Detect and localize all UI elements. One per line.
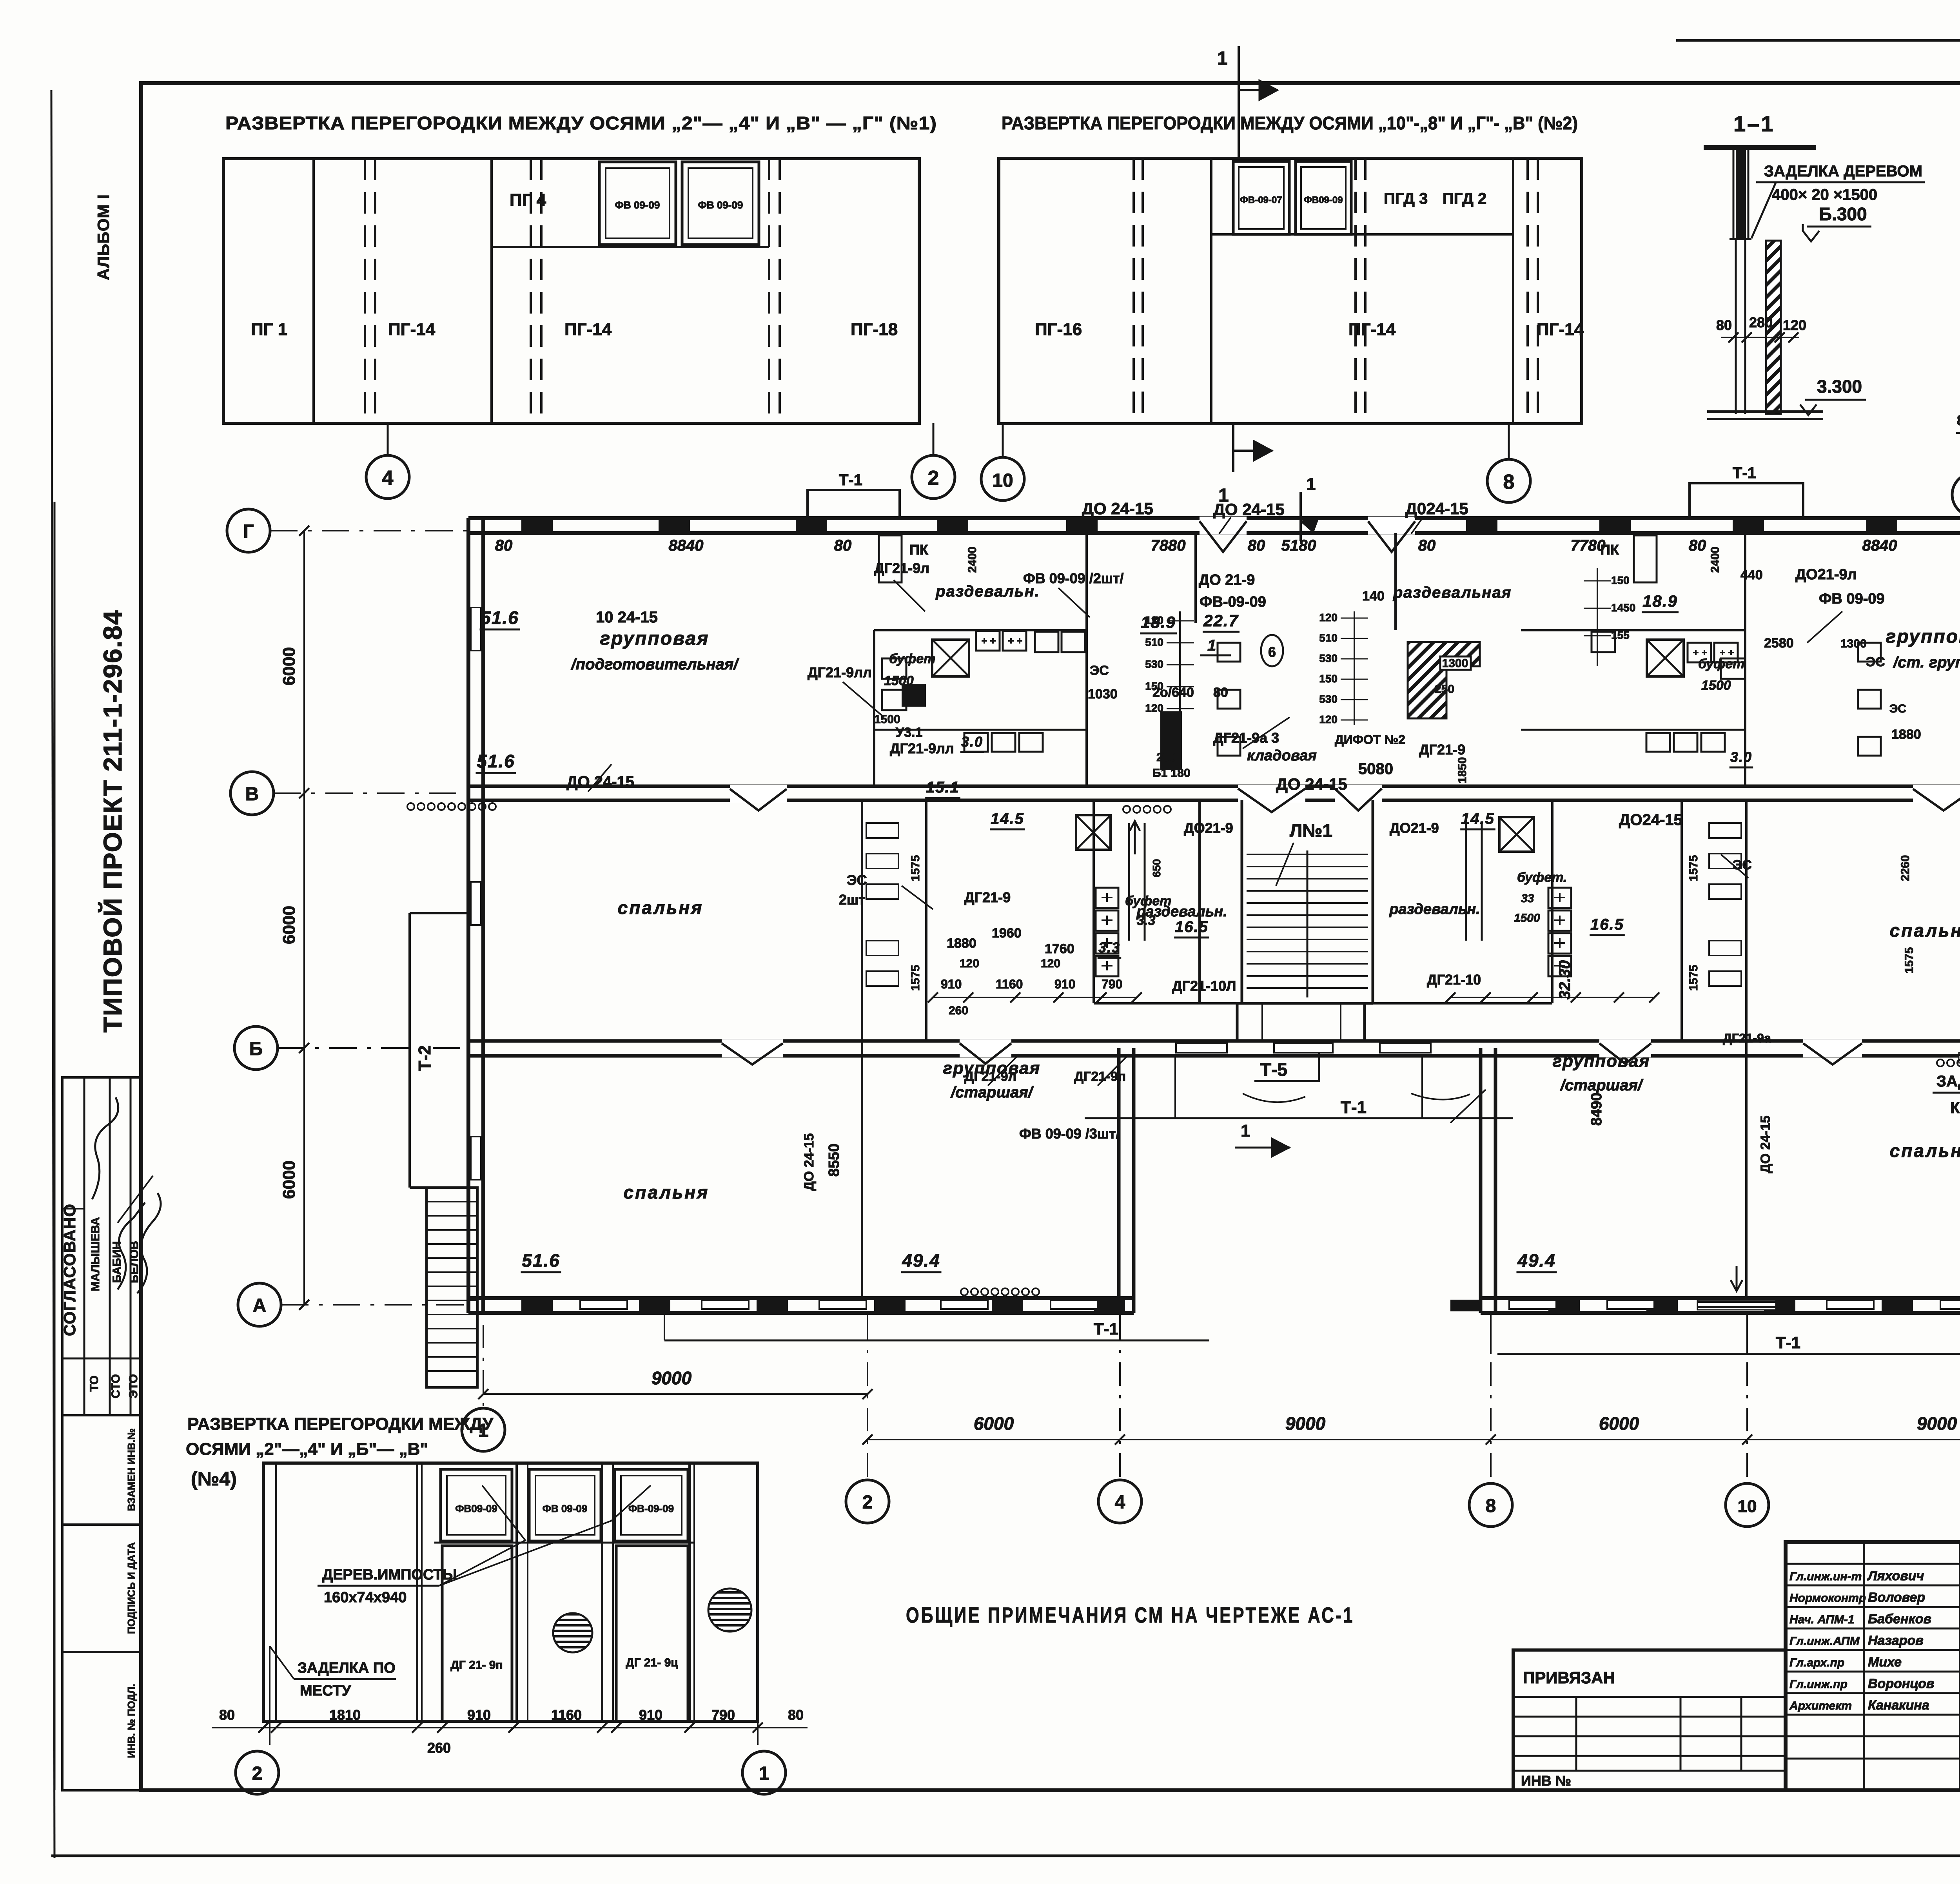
- svg-text:Т-1: Т-1: [839, 471, 862, 489]
- elevation N4 transom band: [434, 1542, 694, 1544]
- svg-text:6000: 6000: [279, 647, 299, 685]
- svg-text:ЭС: ЭС: [1090, 663, 1109, 678]
- svg-text:9000: 9000: [1285, 1413, 1326, 1434]
- washstand X-box a: [932, 640, 969, 676]
- svg-text:6: 6: [1268, 644, 1276, 660]
- svg-text:Архитект: Архитект: [1789, 1699, 1852, 1712]
- svg-text:1160: 1160: [996, 977, 1023, 991]
- axis circle 2: [846, 1480, 889, 1523]
- svg-text:33: 33: [1521, 892, 1534, 905]
- svg-text:ОСЯМИ „2"—„4" И „Б"— „В": ОСЯМИ „2"—„4" И „Б"— „В": [186, 1440, 428, 1459]
- svg-text:ЭТО: ЭТО: [127, 1374, 140, 1398]
- top margin band: [1676, 39, 1960, 42]
- svg-text:ПГ-14: ПГ-14: [1348, 320, 1396, 339]
- svg-text:1760: 1760: [1045, 941, 1074, 956]
- svg-text:160х74х940: 160х74х940: [324, 1589, 407, 1606]
- N4 axis circle 2: [269, 1646, 270, 1745]
- svg-text:120: 120: [1319, 713, 1338, 725]
- svg-text:групповая: групповая: [1886, 626, 1960, 647]
- svg-text:7880: 7880: [1151, 537, 1186, 554]
- svg-text:10: 10: [1738, 1497, 1757, 1516]
- svg-text:Гл.арх.пр: Гл.арх.пр: [1789, 1656, 1844, 1669]
- section mark 1 bottom: [1232, 424, 1234, 472]
- partition cloakroom shelf right: [1521, 729, 1745, 731]
- dim stack right C: [1597, 568, 1598, 666]
- svg-text:Л№1: Л№1: [1290, 820, 1332, 841]
- svg-text:Нач. АПМ-1: Нач. АПМ-1: [1789, 1613, 1855, 1626]
- toilet stalls right: [1709, 823, 1741, 838]
- svg-text:1450: 1450: [1611, 602, 1635, 614]
- svg-text:530: 530: [1319, 652, 1338, 664]
- svg-text:32.30: 32.30: [1556, 960, 1573, 999]
- svg-text:250: 250: [1435, 683, 1454, 696]
- svg-text:510: 510: [1319, 632, 1338, 644]
- svg-text:буфет.: буфет.: [1517, 870, 1567, 885]
- elevation N1 outline: [223, 159, 919, 423]
- elevation N2 transom band: [1211, 233, 1513, 236]
- left wall window boxes: [471, 607, 481, 651]
- svg-text:ФВ 09-09 /2шт/: ФВ 09-09 /2шт/: [1023, 570, 1123, 586]
- svg-text:400× 20 ×1500: 400× 20 ×1500: [1772, 186, 1877, 203]
- axis circle V: [230, 772, 274, 815]
- svg-text:80: 80: [1689, 537, 1706, 554]
- svg-text:ВЗАМЕН ИНВ.№: ВЗАМЕН ИНВ.№: [125, 1429, 137, 1511]
- svg-text:ПГ 4: ПГ 4: [510, 190, 546, 210]
- svg-text:ДО 21-9: ДО 21-9: [1199, 572, 1255, 588]
- svg-text:120: 120: [1145, 614, 1163, 626]
- svg-text:2: 2: [862, 1492, 873, 1513]
- svg-text:А: А: [253, 1295, 267, 1316]
- section floor line: [1707, 410, 1823, 413]
- svg-text:1300: 1300: [1840, 637, 1867, 650]
- svg-text:1880: 1880: [947, 936, 976, 951]
- signatures squiggles: [92, 1097, 118, 1199]
- svg-text:ПОДПИСЬ И ДАТА: ПОДПИСЬ И ДАТА: [125, 1542, 137, 1634]
- svg-text:БАБИН: БАБИН: [111, 1241, 123, 1283]
- axis leader 8: [1508, 424, 1510, 459]
- svg-text:ДО 24-15: ДО 24-15: [1082, 499, 1153, 518]
- svg-text:530: 530: [1319, 693, 1338, 705]
- svg-text:120: 120: [1041, 957, 1060, 970]
- svg-text:ДО21-9л: ДО21-9л: [1795, 566, 1857, 583]
- partition razdeваль center-right-2: [1551, 800, 1553, 1003]
- svg-text:80: 80: [834, 537, 852, 554]
- axis circle 10: [1726, 1483, 1769, 1527]
- svg-text:910: 910: [467, 1707, 491, 1723]
- door opening B-wall center-right chevron: [1599, 1039, 1651, 1057]
- elevation N2 window a: [1233, 161, 1289, 234]
- svg-text:/старшая/: /старшая/: [950, 1084, 1034, 1101]
- svg-text:1575: 1575: [909, 855, 922, 881]
- svg-text:АЛЬБОМ I: АЛЬБОМ I: [94, 194, 113, 280]
- svg-text:9000: 9000: [1917, 1413, 1957, 1434]
- partition buffet center-left: [1093, 800, 1095, 1003]
- svg-text:ДГ 21- 9п: ДГ 21- 9п: [450, 1659, 503, 1672]
- svg-text:80: 80: [1716, 317, 1732, 333]
- title block signature rows: [1786, 1563, 1960, 1565]
- hatched vent strip bottom right: [1697, 1300, 1776, 1310]
- wall piers top: [521, 520, 553, 531]
- svg-text:ДГ21-9лл: ДГ21-9лл: [890, 740, 954, 756]
- svg-text:1: 1: [1217, 48, 1228, 69]
- right wing inner west wall: [1479, 1048, 1483, 1313]
- svg-text:1880: 1880: [1891, 727, 1921, 742]
- interior wall axis V: [468, 785, 1960, 788]
- svg-text:СТО: СТО: [109, 1374, 122, 1398]
- axis line B: [278, 1047, 468, 1049]
- N4 dim line: [212, 1727, 808, 1728]
- svg-text:ПГ 1: ПГ 1: [251, 320, 287, 339]
- sheet outer paper edge bottom: [51, 1855, 1960, 1857]
- svg-text:ЭС: ЭС: [1733, 858, 1752, 872]
- svg-text:16.5: 16.5: [1590, 916, 1624, 933]
- fixtures top cluster small boxes: [1035, 632, 1058, 652]
- door opening B-wall left: [722, 1039, 783, 1057]
- svg-text:150: 150: [1611, 574, 1630, 586]
- svg-text:буфет: буфет: [1125, 894, 1171, 908]
- svg-text:260: 260: [949, 1004, 968, 1017]
- svg-text:Т-1: Т-1: [1094, 1320, 1118, 1338]
- svg-text:ТИПОВОЙ ПРОЕКТ 211-1-296.84: ТИПОВОЙ ПРОЕКТ 211-1-296.84: [98, 609, 127, 1032]
- svg-text:3.300: 3.300: [1817, 376, 1862, 397]
- svg-text:групповая: групповая: [600, 628, 710, 649]
- bottom dim row 2: [867, 1439, 1960, 1440]
- svg-text:ФВ-09-09: ФВ-09-09: [628, 1503, 674, 1514]
- door opening V-wall left chevron: [730, 785, 787, 802]
- outer wall left (axis 1): [466, 518, 470, 1313]
- svg-text:Нормоконтр: Нормоконтр: [1789, 1592, 1866, 1605]
- N4 window a: [441, 1469, 512, 1541]
- svg-text:У3.1: У3.1: [896, 725, 922, 740]
- svg-text:8840: 8840: [1862, 537, 1897, 554]
- svg-text:ПГ-16: ПГ-16: [1035, 320, 1082, 339]
- svg-text:Канакина: Канакина: [1868, 1698, 1929, 1713]
- section mark 1 bottom center: [1235, 1147, 1290, 1149]
- corridor dim line with ticks right: [1450, 997, 1654, 998]
- buffet stack center-left: [1096, 888, 1118, 908]
- svg-text:Воронцов: Воронцов: [1868, 1676, 1934, 1691]
- svg-text:ЭС: ЭС: [1889, 702, 1906, 715]
- dim stack center A: [1354, 611, 1355, 725]
- external stair left: [426, 1188, 477, 1387]
- vzamen inv box: [62, 1415, 141, 1525]
- svg-text:ЭС: ЭС: [847, 872, 867, 888]
- canopy line below right wing: [1497, 1353, 1960, 1355]
- N3 dim line: [1956, 432, 1960, 434]
- svg-text:250: 250: [1156, 751, 1176, 764]
- svg-text:80: 80: [219, 1707, 235, 1723]
- left wing inner east wall: [1117, 1048, 1121, 1313]
- buffet stack center-right: [1548, 888, 1571, 908]
- partition left cluster east: [1085, 533, 1088, 786]
- canopy line below left wing: [664, 1340, 1209, 1342]
- svg-text:10: 10: [992, 470, 1013, 491]
- svg-text:ПГ-18: ПГ-18: [851, 320, 898, 339]
- svg-text:530: 530: [1145, 658, 1163, 670]
- svg-text:9000: 9000: [652, 1368, 692, 1388]
- svg-text:ПГ-14: ПГ-14: [1537, 320, 1584, 339]
- svg-text:3.3: 3.3: [1098, 939, 1120, 956]
- elevation N4 outline: [263, 1463, 758, 1721]
- svg-text:49.4: 49.4: [902, 1250, 940, 1271]
- toilet stalls left: [866, 823, 898, 838]
- svg-text:260: 260: [427, 1740, 451, 1756]
- svg-text:ФВ-09-09: ФВ-09-09: [1200, 594, 1266, 610]
- radiator circles row b: [1123, 806, 1130, 813]
- svg-text:ДО 24-15: ДО 24-15: [566, 773, 634, 791]
- svg-text:1500: 1500: [884, 673, 914, 688]
- N4 door b: [616, 1546, 688, 1721]
- title block outline: [1786, 1542, 1960, 1790]
- svg-text:ПГ-14: ПГ-14: [388, 320, 436, 339]
- door opening B-wall right: [1803, 1039, 1862, 1057]
- svg-text:ФВ 09-09 /3шт/: ФВ 09-09 /3шт/: [1019, 1126, 1120, 1142]
- svg-text:спальня: спальня: [618, 898, 704, 918]
- svg-text:510: 510: [1145, 636, 1163, 648]
- svg-text:спальня: спальня: [1890, 920, 1960, 941]
- svg-text:1: 1: [1207, 637, 1216, 654]
- svg-text:120: 120: [960, 957, 979, 970]
- corridor dim line with ticks left: [933, 997, 1137, 998]
- svg-text:спальня: спальня: [624, 1182, 710, 1202]
- svg-text:8840: 8840: [669, 537, 704, 554]
- axis line V: [274, 792, 468, 794]
- svg-text:140: 140: [1362, 589, 1385, 604]
- svg-text:1575: 1575: [909, 965, 922, 991]
- svg-text:ПГД 3: ПГД 3: [1384, 190, 1428, 207]
- partition center hall west: [1194, 533, 1197, 623]
- svg-text:Гл.инж.пр: Гл.инж.пр: [1789, 1678, 1847, 1691]
- svg-text:ПГД 2: ПГД 2: [1443, 190, 1486, 207]
- svg-text:80: 80: [1418, 537, 1436, 554]
- svg-text:ФВ09-09: ФВ09-09: [1304, 195, 1343, 205]
- small black fixture center: [1160, 711, 1182, 770]
- buffet counter fixtures right: [1688, 643, 1711, 662]
- svg-text:ДГ21-9а 3: ДГ21-9а 3: [1213, 730, 1279, 746]
- porch T2 left: [410, 912, 468, 914]
- svg-text:СОГЛАСОВАНО: СОГЛАСОВАНО: [60, 1204, 79, 1336]
- washstand X-box d: [1647, 640, 1684, 676]
- svg-text:2260: 2260: [1899, 855, 1912, 881]
- svg-text:1575: 1575: [1687, 965, 1700, 991]
- svg-text:8550: 8550: [826, 1144, 842, 1177]
- svg-text:Т-1: Т-1: [1733, 464, 1756, 482]
- svg-text:150: 150: [1319, 673, 1338, 685]
- svg-text:1850: 1850: [1456, 757, 1469, 783]
- svg-text:МАЛЫШЕВА: МАЛЫШЕВА: [89, 1217, 102, 1291]
- washstand X-box b: [1076, 815, 1111, 850]
- bottom dim row 1 (9000): [483, 1393, 867, 1395]
- soglasovano table: [62, 1077, 141, 1415]
- partition toilets right: [1681, 800, 1683, 1041]
- svg-text:80: 80: [1957, 412, 1960, 428]
- svg-text:4: 4: [382, 467, 394, 490]
- stair core L1: [1241, 800, 1243, 1003]
- privyazan table: [1513, 1650, 1786, 1790]
- outer wall bottom left wing (axis A): [468, 1296, 1134, 1300]
- svg-text:51.6: 51.6: [477, 751, 515, 771]
- svg-text:15.1: 15.1: [926, 779, 960, 796]
- svg-text:ИНВ. № ПОДЛ.: ИНВ. № ПОДЛ.: [125, 1684, 137, 1758]
- svg-text:22.7: 22.7: [1203, 611, 1239, 630]
- partition right cluster west: [1744, 533, 1746, 786]
- inv n podl box: [62, 1652, 141, 1790]
- svg-text:ДО 24-15: ДО 24-15: [1276, 775, 1347, 793]
- svg-text:80: 80: [1248, 537, 1265, 554]
- canopy box top wall b: [1690, 483, 1803, 518]
- svg-text:ФВ 09-09: ФВ 09-09: [698, 199, 743, 211]
- svg-text:ИНВ №: ИНВ №: [1521, 1773, 1571, 1789]
- svg-text:49.4: 49.4: [1517, 1250, 1556, 1271]
- elevation N2 window b: [1296, 161, 1351, 234]
- elevation N1 window FV09-09 b: [682, 162, 759, 245]
- svg-text:Б: Б: [249, 1039, 263, 1059]
- svg-text:ФВ 09-09: ФВ 09-09: [1819, 591, 1885, 607]
- svg-text:2: 2: [928, 467, 939, 490]
- section cut mark at plan top: [1299, 492, 1302, 541]
- razdevalnya south wall right of stair: [1373, 1002, 1552, 1005]
- svg-text:Гл.инж.АПМ: Гл.инж.АПМ: [1789, 1635, 1860, 1648]
- outer wall bottom right wing (axis A): [1481, 1296, 1960, 1300]
- svg-text:ДГ21-9а: ДГ21-9а: [1723, 1031, 1771, 1045]
- svg-text:16.5: 16.5: [1175, 918, 1209, 936]
- leader lines plan misc: [894, 580, 925, 611]
- svg-text:1500: 1500: [1701, 678, 1731, 693]
- svg-text:6000: 6000: [974, 1413, 1014, 1434]
- svg-text:1300: 1300: [1442, 657, 1468, 670]
- svg-text:2шт: 2шт: [839, 892, 866, 908]
- svg-text:ДО 24-15: ДО 24-15: [1758, 1115, 1773, 1173]
- svg-text:8490: 8490: [1588, 1093, 1605, 1126]
- axis leader 4: [387, 423, 389, 455]
- partition center hall east: [1394, 533, 1397, 630]
- svg-text:120: 120: [1145, 702, 1163, 714]
- partition right wing N-S: [1745, 800, 1748, 1298]
- axis line A: [281, 1304, 468, 1306]
- svg-text:Ляхович: Ляхович: [1867, 1568, 1924, 1583]
- svg-text:10 24-15: 10 24-15: [596, 609, 658, 626]
- svg-text:БЕЛОВ: БЕЛОВ: [128, 1241, 141, 1283]
- sheet outer paper edge left: [51, 90, 54, 1858]
- svg-text:5080: 5080: [1358, 760, 1393, 778]
- svg-text:150: 150: [1145, 680, 1163, 692]
- N4 door a: [442, 1546, 512, 1721]
- section 1-1 joint: [1730, 238, 1751, 240]
- svg-text:650: 650: [1151, 859, 1163, 878]
- svg-text:ЗАДЕЛКА ДЕРЕВОМ: ЗАДЕЛКА ДЕРЕВОМ: [1764, 163, 1922, 180]
- svg-text:3.0: 3.0: [1730, 749, 1752, 765]
- svg-text:1575: 1575: [1903, 947, 1916, 974]
- canopy line below center recess: [1085, 1117, 1513, 1119]
- svg-text:2: 2: [252, 1763, 263, 1784]
- svg-text:ДГ21-9лл: ДГ21-9лл: [808, 664, 872, 680]
- axis circle B: [234, 1026, 278, 1070]
- svg-text:1500: 1500: [874, 713, 900, 726]
- svg-text:ДГ21-9л: ДГ21-9л: [874, 560, 929, 576]
- N4 window c: [615, 1469, 688, 1541]
- svg-text:ПК: ПК: [1600, 542, 1619, 558]
- svg-text:1960: 1960: [992, 926, 1022, 941]
- extra fixtures cloakroom left: [882, 658, 906, 679]
- door opening V-wall right chevron: [1913, 785, 1960, 802]
- stair treads L1: [1247, 854, 1368, 855]
- N4 window b: [529, 1469, 601, 1541]
- svg-text:ДО21-9: ДО21-9: [1184, 820, 1233, 836]
- svg-text:ФВ09-09: ФВ09-09: [455, 1503, 497, 1514]
- svg-text:РАЗВЕРТКА ПЕРЕГОРОДКИ МЕЖДУ: РАЗВЕРТКА ПЕРЕГОРОДКИ МЕЖДУ ОСЯМИ „2"— „…: [225, 113, 937, 133]
- svg-text:51.6: 51.6: [481, 607, 519, 628]
- door opening top wall center chevrons: [1200, 517, 1247, 535]
- black fixture VZ1: [902, 684, 926, 707]
- svg-text:2400: 2400: [966, 547, 979, 573]
- left vertical dim line: [303, 531, 305, 1305]
- partition left wing N-S: [861, 800, 863, 1298]
- svg-text:ЗАДЕЛКА ПО: ЗАДЕЛКА ПО: [298, 1660, 396, 1676]
- center wall window sills: [1176, 1043, 1227, 1053]
- N4 axis circle 1: [757, 1721, 759, 1745]
- hatched vent strip right wing: [1959, 1053, 1960, 1063]
- svg-text:6000: 6000: [1599, 1413, 1639, 1434]
- svg-text:5180: 5180: [1281, 537, 1316, 554]
- svg-text:1500: 1500: [1514, 912, 1540, 925]
- partition cloakroom shelf left: [874, 729, 1087, 731]
- svg-text:910: 910: [1054, 977, 1075, 991]
- outer wall top (axis G): [468, 516, 1960, 520]
- buffet counter fixtures left: [976, 631, 1000, 651]
- podpis i data box: [62, 1525, 141, 1652]
- svg-text:ТО: ТО: [88, 1376, 101, 1392]
- svg-text:120: 120: [1319, 611, 1338, 624]
- svg-text:групповая: групповая: [1553, 1052, 1650, 1071]
- svg-text:910: 910: [639, 1707, 662, 1723]
- svg-text:ДО 24-15: ДО 24-15: [802, 1133, 817, 1191]
- svg-text:2580: 2580: [1764, 636, 1794, 651]
- razdevalnya south wall left of stair: [1094, 1002, 1242, 1005]
- svg-text:ПГ-14: ПГ-14: [564, 320, 612, 339]
- svg-text:ДГ21-9: ДГ21-9: [964, 889, 1011, 905]
- elevation N1 transom band: [492, 246, 769, 248]
- svg-text:440: 440: [1740, 568, 1763, 582]
- door opening V-wall center-right chevron: [1335, 785, 1382, 802]
- svg-text:ФВ 09-09: ФВ 09-09: [615, 199, 660, 211]
- partition toilets left: [925, 800, 927, 1041]
- svg-text:910: 910: [941, 977, 962, 991]
- svg-text:1: 1: [1241, 1121, 1250, 1141]
- svg-text:1575: 1575: [1687, 855, 1700, 881]
- svg-text:ДО24-15: ДО24-15: [1619, 811, 1682, 829]
- svg-text:8: 8: [1503, 471, 1515, 493]
- section 1-1 hatched partition: [1766, 241, 1781, 414]
- svg-text:КИРПИЧОМ: КИРПИЧОМ: [1950, 1099, 1960, 1117]
- center bottom wall on axis B: [1119, 1039, 1495, 1043]
- interior wall axis B: [468, 1039, 1134, 1043]
- partition razdevalnaya south left: [874, 629, 1087, 631]
- svg-text:(№4): (№4): [191, 1468, 237, 1490]
- svg-text:6000: 6000: [279, 906, 299, 944]
- dim stack center B: [1179, 611, 1181, 753]
- svg-text:ДГ21-9п: ДГ21-9п: [1074, 1069, 1126, 1084]
- section mark 1 top: [1238, 46, 1240, 158]
- svg-text:Бабенков: Бабенков: [1868, 1612, 1931, 1627]
- axis circle 1: [462, 1408, 505, 1451]
- mark 6 circled: [1261, 635, 1283, 666]
- svg-text:В: В: [245, 784, 259, 805]
- svg-text:Г: Г: [243, 521, 254, 542]
- partition buffet center-right: [1198, 800, 1201, 1003]
- elevation N2 outline: [999, 158, 1582, 424]
- vestibule T5: [1237, 1003, 1365, 1041]
- svg-text:/ст. группа/: /ст. группа/: [1893, 654, 1960, 671]
